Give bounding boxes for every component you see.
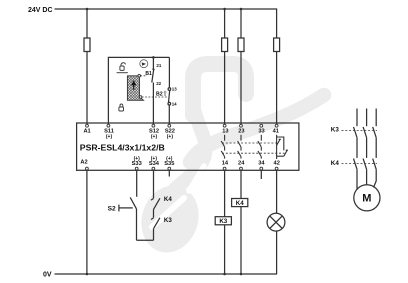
wire S2 down [136, 209, 138, 240]
contact K3 blade [154, 218, 160, 229]
svg-text:K3: K3 [331, 127, 340, 134]
fuse F2 [222, 38, 228, 52]
coil circuit K4 [232, 171, 248, 274]
wire to contact B2 terminal 13 [168, 57, 170, 87]
terminal S22 [168, 124, 171, 127]
svg-text:0V: 0V [43, 272, 52, 279]
wire lamp to 0V [276, 231, 278, 274]
terminal S11 [107, 124, 110, 127]
svg-text:23: 23 [238, 129, 244, 135]
terminal 24 [240, 167, 243, 170]
safety relay box PSR-ESL4 [77, 123, 299, 170]
contact K3 pole1 blade [354, 127, 358, 138]
svg-text:24: 24 [238, 160, 245, 166]
wire F2 to terminal 13 [224, 52, 226, 125]
K3 fixed tick [151, 218, 154, 220]
wire rail to F3 [240, 9, 242, 38]
wire F3 to terminal 23 [240, 52, 242, 125]
S2 actuator [118, 205, 120, 212]
terminal S34 [152, 167, 155, 170]
svg-text:(+): (+) [134, 156, 141, 162]
svg-text:K4: K4 [236, 200, 244, 207]
wire S11 up [108, 57, 169, 124]
svg-text:(+): (+) [151, 156, 158, 162]
contact K3 pole2 blade [363, 127, 367, 138]
indicator lamp circuit [267, 171, 285, 274]
wire 24 down [240, 171, 242, 199]
svg-text:22: 22 [156, 81, 161, 86]
coil circuit K3 [215, 171, 231, 274]
wire 42 down [276, 171, 278, 214]
svg-text:A2: A2 [80, 160, 87, 166]
contact column 33-34 [258, 135, 261, 159]
terminal 14 [223, 167, 226, 170]
svg-text:41: 41 [273, 129, 279, 135]
NC contact column 41-42 [277, 135, 288, 159]
svg-text:S2: S2 [108, 206, 116, 213]
mechanical link B1 [140, 75, 147, 77]
wire K3 to K4 [153, 209, 155, 217]
K4 fixed tick [151, 199, 154, 201]
terminal S33 [135, 167, 138, 170]
wire K4 to S34 [153, 171, 155, 199]
pivot circle top [138, 75, 141, 78]
fuse F4 [274, 38, 280, 52]
svg-text:(+): (+) [167, 134, 174, 140]
wire pole1 K3 to K4 [356, 138, 358, 158]
wire 14 to S22 [168, 105, 170, 124]
contact column 13-14 [221, 135, 224, 159]
wire pole1 to motor [356, 169, 358, 189]
wire pole2 K3 to K4 [366, 138, 368, 158]
contact K4 pole3 blade [373, 159, 377, 170]
wire bottom U [137, 239, 154, 241]
junction at K4 coil on 0V [240, 273, 243, 276]
svg-text:21: 21 [156, 63, 161, 68]
svg-text:K3: K3 [164, 217, 172, 224]
wire to contact B1 [152, 57, 154, 69]
svg-text:K4: K4 [164, 196, 172, 203]
svg-text:(+): (+) [151, 134, 158, 140]
wire pole2 to motor [366, 169, 368, 185]
svg-text:42: 42 [274, 160, 280, 166]
junction at 13 drop [223, 8, 226, 11]
junction at A2 on 0V [86, 273, 89, 276]
terminal 13 [223, 124, 226, 127]
motor branch [342, 109, 381, 211]
terminal S12 [152, 124, 155, 127]
svg-text:34: 34 [258, 160, 265, 166]
K4 linkage dashes [342, 163, 378, 165]
svg-text:(+): (+) [166, 156, 173, 162]
lamp [267, 213, 285, 231]
terminal S35 [168, 167, 171, 170]
junction B1 branch [152, 56, 155, 59]
phase line 2 [366, 109, 368, 127]
svg-text:K4: K4 [331, 160, 340, 167]
watermark logo [133, 64, 324, 260]
junction at A1 drop [86, 8, 89, 11]
phase line 1 [356, 109, 358, 127]
actuator tongue (hatched) [127, 75, 143, 101]
svg-text:A1: A1 [83, 129, 90, 135]
stub below S35 [168, 171, 170, 177]
reset button icon [140, 60, 148, 68]
wire pole3 K3 to K4 [375, 138, 377, 158]
wire 22 to S12 [152, 83, 154, 125]
open padlock icon [117, 63, 128, 73]
wire pole3 to motor [374, 169, 377, 187]
24V supply rail [55, 9, 277, 38]
pivot circle bottom [139, 96, 142, 99]
contact B2 blade [169, 90, 170, 102]
terminal labels top [83, 129, 279, 141]
mechanical linkage dashes upper [222, 142, 277, 144]
closed padlock icon [119, 104, 124, 111]
wire A2 down [86, 171, 88, 274]
coil K3 box [215, 217, 231, 225]
motor M1 [354, 185, 380, 211]
svg-text:13: 13 [172, 87, 177, 92]
terminal 33 [260, 124, 263, 127]
contact K4 pole2 blade [363, 159, 367, 170]
wire F4 to terminal 41 [276, 52, 278, 125]
mechanical link B2 [142, 96, 168, 98]
junction at K3 coil on 0V [223, 273, 226, 276]
terminal 34 [260, 167, 263, 170]
wire up to K3 [153, 229, 155, 241]
wire K3 to 0V [224, 225, 226, 274]
terminal labels bottom [80, 156, 280, 167]
wire A1 drop [86, 9, 88, 38]
terminal 42 [275, 167, 278, 170]
terminal circle 14 of B2 [168, 102, 171, 105]
contact K4 blade [154, 198, 160, 209]
contact column 23-24 [238, 135, 241, 159]
fuse F3 [238, 38, 244, 52]
svg-text:M: M [362, 193, 371, 205]
svg-text:PSR-ESL4/3x1/1x2/B: PSR-ESL4/3x1/1x2/B [80, 142, 165, 152]
arrow inside actuator [131, 80, 136, 85]
terminal A1 [86, 124, 89, 127]
terminal 41 [275, 124, 278, 127]
stub below 34 [260, 171, 262, 179]
wire fuse to 13 [224, 9, 226, 38]
fuse F1 [84, 38, 90, 52]
terminal 23 [240, 124, 243, 127]
terminal circle 13 of B2 [168, 88, 171, 91]
wire S33 down [136, 171, 138, 197]
pushbutton S2 blade [130, 197, 136, 209]
svg-text:13: 13 [222, 129, 228, 135]
terminal A2 [86, 167, 89, 170]
0V supply rail [55, 273, 278, 275]
interlock switch circuit [108, 56, 170, 124]
mechanical linkage dashes lower [222, 152, 285, 154]
coil K4 box [232, 199, 248, 207]
relay internal contacts [221, 135, 288, 159]
svg-text:24V DC: 24V DC [28, 7, 53, 14]
wire K4 to 0V [240, 207, 242, 274]
contact B1 fixed tick [152, 68, 155, 70]
svg-text:B1: B1 [145, 71, 152, 77]
svg-text:33: 33 [258, 129, 264, 135]
svg-text:14: 14 [172, 101, 177, 106]
svg-text:14: 14 [222, 160, 229, 166]
K3 linkage dashes [342, 130, 378, 132]
contact K4 pole1 blade [354, 159, 358, 170]
svg-text:(+): (+) [106, 134, 113, 140]
junction at 23 drop [240, 8, 243, 11]
contact K3 pole3 blade [373, 127, 377, 138]
svg-text:⇧: ⇧ [162, 91, 167, 98]
wire 14 down [224, 171, 226, 217]
phase line 3 [375, 109, 377, 127]
wire fuse to A1 [86, 52, 88, 125]
svg-text:K3: K3 [219, 218, 227, 225]
top terminal circles [86, 124, 279, 170]
contact B1 blade [152, 70, 154, 83]
start circuit S2 / K4 / K3 feedback [119, 171, 160, 241]
